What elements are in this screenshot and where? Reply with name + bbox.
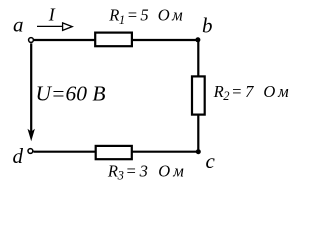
wire bottom: d to R3 (33, 151, 95, 153)
svg-text:b: b (202, 14, 213, 38)
resistor R1 (95, 33, 132, 47)
resistor R2 (192, 76, 205, 114)
svg-text:R2=7 Ом: R2=7 Ом (213, 82, 292, 103)
wire right: R2 to c (197, 115, 199, 153)
current arrow I open head (63, 23, 73, 31)
node b junction dot (195, 37, 200, 42)
wire top: a to R1 (34, 39, 95, 41)
svg-text:c: c (206, 149, 216, 173)
svg-text:R1=5 Ом: R1=5 Ом (108, 6, 185, 27)
voltage arrow U head (28, 129, 35, 142)
wire top: R1 to b (133, 39, 200, 41)
svg-text:a: a (13, 13, 24, 37)
current arrow I line (37, 25, 63, 27)
terminal a (29, 38, 34, 43)
wire bottom: R3 to c (132, 151, 199, 153)
resistor R3 (96, 146, 132, 159)
svg-text:I: I (48, 5, 56, 25)
svg-text:R3=3 Ом: R3=3 Ом (107, 161, 187, 182)
node c junction dot (196, 149, 201, 154)
wire right: b to R2 (197, 39, 199, 76)
voltage arrow U wire (30, 43, 32, 134)
terminal d (28, 149, 33, 154)
svg-text:d: d (13, 144, 24, 168)
svg-text:U=60 В: U=60 В (36, 81, 106, 105)
